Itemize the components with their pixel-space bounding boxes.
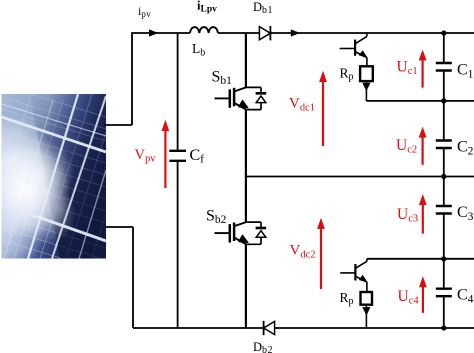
voltage arrow V_pv — [162, 120, 170, 188]
voltage arrow U_c3 — [419, 194, 427, 234]
resistor R_p (top) — [360, 66, 373, 81]
inductor L_b — [190, 27, 218, 33]
resistor R_p (bottom) — [361, 292, 373, 305]
wire bottom rail right segment — [275, 327, 474, 329]
wire S_b1 emitter to midpoint — [245, 110, 247, 177]
wire S_b2 collector branch — [245, 177, 247, 223]
wire S_b1 collector branch — [245, 33, 247, 88]
voltage arrow V_dc2 — [317, 218, 325, 289]
right rail segment 5 — [443, 297, 445, 328]
wire C_f branch lower — [177, 161, 179, 328]
diode D_b2 — [264, 321, 275, 335]
right rail segment 1 — [443, 33, 445, 63]
wire R_p down to bottom rail with arrow — [362, 305, 370, 328]
transistor S_b2 IGBT — [215, 222, 267, 244]
right rail segment 3 — [443, 148, 445, 205]
capacitor C3 — [436, 206, 452, 214]
wire left rail lower — [132, 227, 134, 328]
junction node middle — [441, 174, 446, 179]
right rail segment 4 — [443, 214, 445, 288]
voltage arrow V_dc1 — [319, 71, 327, 146]
capacitor C1 — [436, 63, 452, 71]
wire Q2 emitter to R_p — [366, 282, 368, 292]
wire top rail middle segment — [218, 32, 260, 34]
wire upper PV terminal — [104, 124, 132, 126]
wire stub C1-C2 junction — [366, 100, 474, 102]
wire Q1 emitter to R_p — [366, 58, 368, 67]
voltage arrow U_c1 — [419, 50, 427, 88]
wire stub C3-C4 junction — [367, 258, 474, 260]
wire C_f branch upper — [177, 33, 179, 150]
wire R_p down with arrow — [362, 81, 370, 101]
wire lower PV terminal — [105, 226, 133, 228]
wire middle rail — [246, 176, 474, 178]
wire bottom rail left segment — [133, 327, 264, 329]
wire S_b2 emitter to bottom rail — [245, 244, 247, 328]
transistor S_b1 IGBT — [215, 87, 267, 109]
junction node bottom right — [441, 325, 446, 330]
diode D_b1 — [259, 26, 270, 40]
current arrow on top rail right — [291, 29, 300, 36]
wire top rail left segment — [132, 33, 190, 125]
current arrow i_pv on top rail — [149, 29, 159, 36]
capacitor C4 — [436, 289, 452, 297]
voltage arrow U_c2 — [419, 127, 427, 165]
PV panel photo — [0, 85, 106, 272]
transistor Q1 (top clamp BJT) — [340, 33, 368, 58]
capacitor C_f — [169, 151, 186, 161]
capacitor C2 — [436, 141, 452, 149]
voltage arrow U_c4 — [419, 276, 427, 313]
junction node top right — [441, 30, 446, 35]
wire top rail right segment — [270, 32, 474, 34]
right rail segment 2 — [443, 71, 445, 140]
junction node C3-C4 — [441, 256, 446, 261]
transistor Q2 (bottom clamp BJT) — [340, 259, 368, 283]
junction node C1-C2 — [441, 98, 446, 103]
